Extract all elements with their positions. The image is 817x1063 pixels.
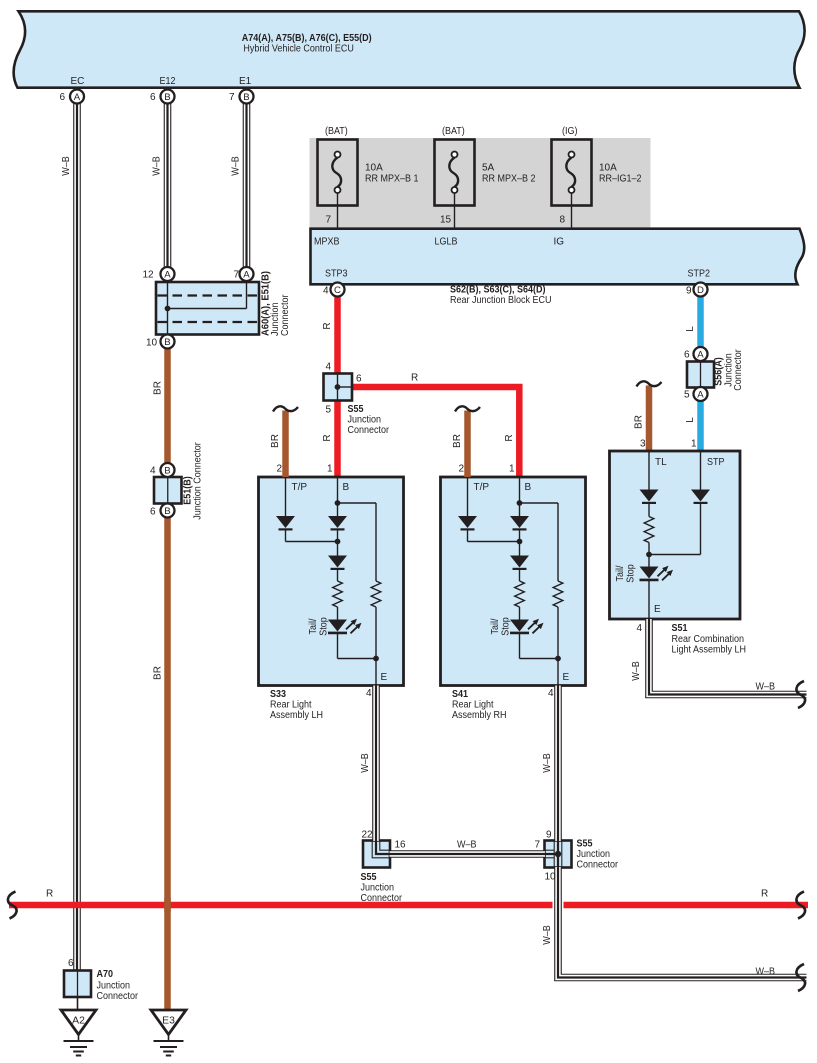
junction connector A60(A) E51(B) — [156, 282, 259, 335]
label pins 9 7 10 at S55 lower-right — [535, 830, 557, 883]
svg-text:A: A — [697, 349, 704, 360]
svg-text:E: E — [563, 672, 570, 683]
svg-text:10A: 10A — [365, 163, 383, 174]
pin 10 circle B at A60 — [146, 335, 175, 349]
wire R from S55 pin 6 to S41 pin 1 — [352, 387, 519, 477]
label S33 Rear Light Assembly LH — [270, 689, 323, 721]
svg-text:S51: S51 — [672, 623, 688, 634]
wire W-B from S55 lower-right pin 10 to right edge — [558, 867, 807, 978]
svg-text:6: 6 — [60, 92, 66, 103]
svg-text:E12: E12 — [160, 76, 176, 87]
svg-text:6: 6 — [68, 958, 74, 969]
svg-text:A: A — [74, 92, 81, 103]
svg-text:RR–IG1–2: RR–IG1–2 — [599, 174, 642, 185]
break curl S51 W-B — [796, 681, 805, 708]
component box S51 — [610, 451, 741, 619]
label S55 Junction Connector (lower right) — [577, 839, 619, 871]
svg-text:D: D — [697, 285, 704, 296]
svg-text:Junction: Junction — [577, 849, 611, 860]
ground A2 — [61, 1010, 96, 1056]
svg-text:W–B: W–B — [360, 753, 371, 773]
wire W-B from S51 pin 4 to right edge — [649, 619, 807, 695]
svg-text:4: 4 — [150, 466, 156, 477]
svg-text:Connector: Connector — [577, 860, 619, 871]
junction connector S56(A) — [684, 347, 744, 401]
wire W-B from ECU pin E12 6(B) to A60 pin 12(A) — [164, 100, 172, 270]
junction connector S55 (lower right) — [545, 841, 572, 868]
svg-text:7: 7 — [535, 840, 541, 851]
svg-text:Assembly LH: Assembly LH — [270, 710, 323, 721]
svg-text:Rear Combination: Rear Combination — [672, 634, 745, 645]
svg-text:T/P: T/P — [292, 482, 308, 493]
svg-text:(BAT): (BAT) — [442, 126, 465, 137]
svg-text:Stop: Stop — [625, 564, 636, 583]
svg-text:1: 1 — [691, 439, 697, 450]
svg-text:E: E — [654, 604, 661, 615]
svg-text:STP3: STP3 — [325, 269, 348, 280]
svg-text:Rear Light: Rear Light — [270, 700, 312, 711]
svg-text:R: R — [411, 373, 418, 384]
main wire R bus (bottom) — [9, 902, 808, 909]
svg-text:4: 4 — [326, 362, 332, 373]
svg-text:STP2: STP2 — [688, 269, 711, 280]
svg-text:A2: A2 — [72, 1015, 85, 1026]
svg-text:B: B — [164, 92, 170, 103]
svg-text:12: 12 — [143, 270, 155, 281]
junction block fuse panel (gray) — [310, 138, 651, 230]
svg-text:R: R — [46, 889, 53, 900]
svg-text:BR: BR — [153, 666, 164, 680]
svg-text:W–B: W–B — [151, 156, 162, 176]
label S51 Rear Combination Light Assembly LH — [672, 623, 747, 656]
fuse 10A RR-IG1-2 (IG) pin 8 — [552, 126, 642, 229]
svg-text:E1: E1 — [239, 76, 252, 87]
wire W-B inside S55 lower-right — [544, 840, 562, 868]
svg-text:4: 4 — [548, 688, 554, 699]
svg-text:6: 6 — [356, 374, 362, 385]
svg-text:5: 5 — [684, 390, 690, 401]
wire BR from A60 pin 10(B) to ground E3 — [164, 342, 171, 1011]
svg-text:Connector: Connector — [97, 991, 139, 1002]
svg-text:S55: S55 — [577, 839, 593, 850]
svg-text:Junction: Junction — [348, 415, 382, 426]
pin 12 circle A at A60 — [143, 267, 175, 281]
junction dot in S55 lower-right — [555, 851, 561, 857]
svg-text:B: B — [243, 92, 249, 103]
svg-text:L: L — [685, 326, 696, 332]
wire W-B between S55 connectors — [390, 850, 546, 858]
svg-text:5A: 5A — [482, 163, 495, 174]
svg-text:4: 4 — [323, 286, 329, 297]
svg-text:C: C — [334, 285, 341, 296]
svg-text:B: B — [164, 465, 170, 476]
svg-text:RR MPX–B 2: RR MPX–B 2 — [482, 174, 536, 185]
svg-text:TL: TL — [655, 457, 667, 468]
component box S33 — [259, 477, 404, 686]
svg-text:BR: BR — [452, 434, 463, 448]
svg-text:16: 16 — [395, 840, 407, 851]
label S62(B), S63(C), S64(D) Rear Junction Block ECU — [450, 285, 552, 307]
svg-text:STP: STP — [707, 457, 725, 468]
svg-text:4: 4 — [637, 623, 643, 634]
S51 internals — [615, 451, 725, 619]
svg-text:5: 5 — [326, 405, 332, 416]
pin 9 circle D at STP2 — [686, 283, 708, 297]
svg-text:W–B: W–B — [756, 682, 776, 693]
svg-text:S55: S55 — [348, 404, 364, 415]
svg-text:Rear Light: Rear Light — [452, 700, 494, 711]
svg-text:BR: BR — [270, 434, 281, 448]
svg-text:L: L — [685, 417, 696, 423]
svg-text:Assembly RH: Assembly RH — [452, 710, 507, 721]
svg-text:R: R — [322, 322, 333, 329]
label pins 22 16 at S55 lower-left — [362, 830, 407, 851]
svg-text:1: 1 — [327, 464, 333, 475]
svg-text:Connector: Connector — [348, 425, 390, 436]
wire W-B from S41 pin E to S55 lower-right — [554, 686, 562, 842]
junction connector E51(B) — [150, 442, 203, 520]
svg-text:W–B: W–B — [61, 156, 72, 176]
Rear Junction Block ECU banner S62(B) S63(C) S64(D) — [311, 229, 805, 285]
svg-text:A70: A70 — [97, 969, 114, 980]
label S55 Junction Connector (lower left) — [361, 872, 403, 904]
svg-text:W–B: W–B — [756, 967, 776, 978]
wire BR overlay crossing R bus — [164, 898, 171, 912]
svg-text:W–B: W–B — [542, 753, 553, 773]
svg-text:W–B: W–B — [230, 156, 241, 176]
ECU banner: Hybrid Vehicle Control ECU (A74/A75/A76/E55) — [14, 11, 805, 87]
wire W-B from ECU pin EC 6(A) down to A70 — [73, 100, 81, 971]
svg-text:10: 10 — [545, 872, 557, 883]
svg-text:IG: IG — [554, 237, 565, 248]
svg-text:(IG): (IG) — [562, 126, 578, 137]
break curl bottom W-B — [796, 964, 805, 991]
junction connector S55 (upper, red) — [324, 374, 390, 437]
component box S41 — [441, 477, 586, 686]
svg-text:Tail/: Tail/ — [615, 565, 626, 581]
wire W-B from S33 pin E to S55 lower-left — [372, 686, 380, 842]
svg-text:B: B — [164, 337, 170, 348]
svg-text:9: 9 — [546, 830, 552, 841]
svg-text:BR: BR — [153, 381, 164, 395]
svg-text:MPXB: MPXB — [314, 237, 340, 248]
svg-text:Rear Junction Block ECU: Rear Junction Block ECU — [450, 295, 552, 306]
svg-text:A: A — [243, 269, 250, 280]
svg-text:10A: 10A — [599, 163, 617, 174]
pin 6 circle B at ECU E12 — [150, 90, 175, 104]
label A60(A), E51(B) Junction Connector — [261, 271, 291, 336]
pin 6 circle A at ECU EC — [60, 90, 85, 104]
svg-text:E: E — [381, 672, 388, 683]
svg-text:B: B — [343, 482, 350, 493]
wire R from STP3 4(C) to S55 and S33 pin 1 — [334, 293, 341, 477]
svg-text:B: B — [525, 482, 532, 493]
svg-text:6: 6 — [150, 92, 156, 103]
label S41 Rear Light Assembly RH — [452, 689, 507, 721]
svg-text:S33: S33 — [270, 689, 286, 700]
svg-text:B: B — [164, 506, 170, 517]
svg-text:2: 2 — [277, 464, 283, 475]
break curl R right — [796, 892, 805, 919]
svg-text:10: 10 — [146, 338, 158, 349]
svg-text:Connector: Connector — [280, 294, 291, 336]
pin 7 circle B at ECU E1 — [229, 90, 254, 104]
ground E3 — [151, 1010, 186, 1056]
S33 internals — [276, 477, 388, 686]
svg-text:A: A — [164, 269, 171, 280]
svg-text:3: 3 — [640, 439, 646, 450]
wire L from STP2 9(D) to S51 STP pin 1 — [697, 293, 704, 451]
svg-text:RR MPX–B 1: RR MPX–B 1 — [365, 174, 419, 185]
svg-text:S62(B), S63(C), S64(D): S62(B), S63(C), S64(D) — [450, 285, 546, 296]
svg-text:BR: BR — [634, 415, 645, 429]
pin 4 circle C at STP3 — [323, 283, 345, 297]
svg-text:2: 2 — [459, 464, 465, 475]
svg-text:R: R — [322, 434, 333, 441]
svg-text:EC: EC — [71, 76, 85, 87]
svg-text:LGLB: LGLB — [435, 237, 458, 248]
svg-text:Stop: Stop — [500, 617, 511, 636]
svg-text:A: A — [697, 389, 704, 400]
svg-text:Stop: Stop — [318, 617, 329, 636]
svg-text:W–B: W–B — [631, 661, 642, 681]
svg-text:Light Assembly LH: Light Assembly LH — [672, 645, 747, 656]
svg-text:T/P: T/P — [474, 482, 490, 493]
wire BR stub into S51 pin 3 — [637, 381, 662, 451]
svg-text:Junction Connector: Junction Connector — [192, 442, 203, 520]
svg-text:15: 15 — [440, 215, 452, 226]
break curl R left — [8, 892, 17, 919]
svg-text:4: 4 — [366, 688, 372, 699]
svg-text:Junction: Junction — [97, 981, 131, 992]
wire W-B from ECU pin E1 7(B) to A60 pin 7(A) — [243, 100, 251, 270]
svg-text:Junction: Junction — [361, 883, 395, 894]
pin 7 circle A at A60 — [234, 267, 254, 281]
svg-text:Tail/: Tail/ — [490, 618, 501, 634]
svg-text:R: R — [504, 434, 515, 441]
svg-text:8: 8 — [560, 215, 566, 226]
svg-text:7: 7 — [326, 215, 332, 226]
svg-text:S55: S55 — [361, 872, 377, 883]
svg-text:22: 22 — [362, 830, 374, 841]
svg-text:(BAT): (BAT) — [325, 126, 348, 137]
wire BR stub into S41 pin 2 — [455, 406, 480, 477]
svg-text:6: 6 — [150, 507, 156, 518]
fuse 5A RR MPX-B 2 (BAT) pin 15 — [435, 126, 536, 229]
svg-text:9: 9 — [686, 286, 692, 297]
svg-text:W–B: W–B — [542, 925, 553, 945]
svg-text:S41: S41 — [452, 689, 468, 700]
svg-text:Connector: Connector — [733, 349, 744, 391]
fuse 10A RR MPX-B 1 (BAT) pin 7 — [318, 126, 419, 229]
svg-text:E3: E3 — [162, 1015, 175, 1026]
svg-text:A74(A), A75(B), A76(C), E55(D): A74(A), A75(B), A76(C), E55(D) — [242, 33, 372, 44]
svg-text:R: R — [761, 889, 768, 900]
svg-text:W–B: W–B — [457, 840, 477, 851]
S41 internals — [458, 477, 570, 686]
wire W-B elbow inside S55 lower-left — [372, 840, 390, 858]
svg-text:1: 1 — [509, 464, 515, 475]
junction connector A70 — [64, 958, 139, 1010]
wire BR stub into S33 pin 2 — [273, 406, 298, 477]
svg-text:Tail/: Tail/ — [308, 618, 319, 634]
svg-text:7: 7 — [229, 92, 235, 103]
svg-text:6: 6 — [684, 350, 690, 361]
svg-text:Hybrid Vehicle Control ECU: Hybrid Vehicle Control ECU — [243, 44, 354, 55]
junction connector S55 (lower left) — [363, 841, 390, 868]
